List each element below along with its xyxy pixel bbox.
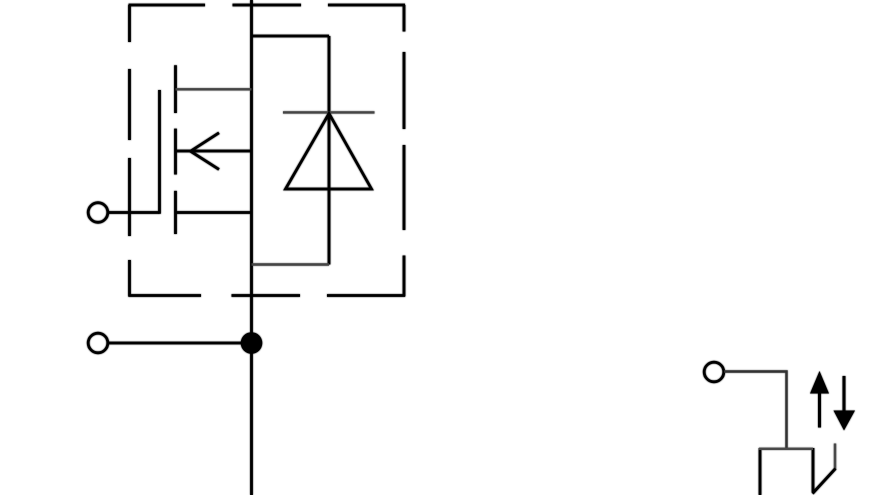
transistor Q1 gate bar [158, 90, 161, 214]
box: lower device body top edge [759, 448, 813, 450]
wire: source bar [176, 211, 252, 214]
wire: diode bottom link [252, 263, 330, 265]
wire: drain bar [176, 88, 252, 90]
transistor Q1 body arrow [191, 133, 220, 170]
arrow up [810, 371, 829, 428]
wire: diode top link [252, 35, 330, 38]
terminal: right control [704, 362, 724, 382]
terminal: gate [88, 203, 108, 223]
wire: main vertical drain-source bus [250, 0, 253, 495]
box: lower device body sides [760, 448, 813, 495]
wire: lower device gate diagonal [813, 469, 836, 494]
wire: right lead horizontal and down [724, 372, 787, 450]
wire: source terminal lead [108, 342, 245, 345]
wire: diode vertical [328, 36, 331, 265]
mosfet module dashed outline [129, 5, 406, 297]
wire: gate lead [108, 211, 159, 214]
diode D1 cathode bar [283, 111, 375, 113]
wire: body connection [176, 150, 252, 153]
diode D1 triangle [286, 114, 372, 190]
terminal: source [88, 333, 108, 353]
wire: lower device gate stub [834, 444, 836, 470]
transistor Q1 channel segments [174, 65, 177, 234]
node: junction dot [241, 332, 263, 354]
arrow down [834, 376, 856, 431]
